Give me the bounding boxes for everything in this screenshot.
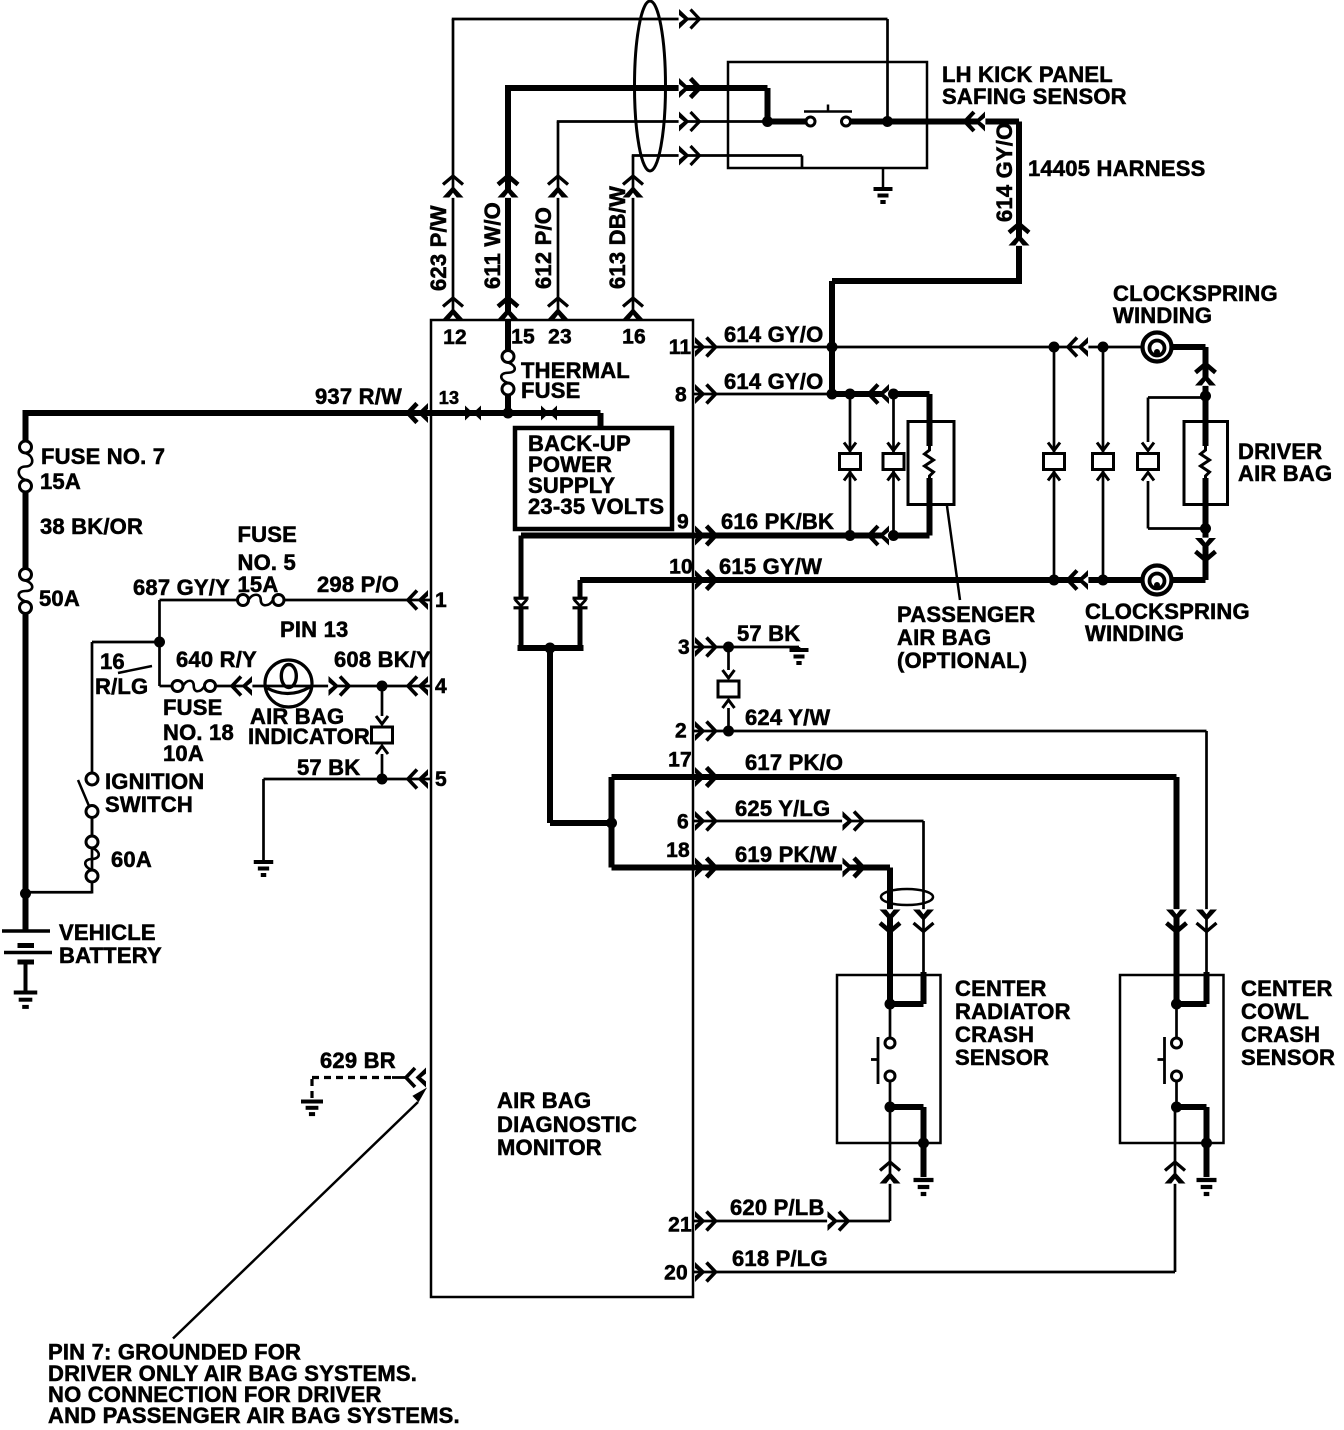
pointer line from 16 R/LG label (118, 666, 152, 673)
svg-text:619 PK/W: 619 PK/W (735, 842, 837, 867)
callout line passenger air bag (947, 506, 960, 600)
svg-text:18: 18 (666, 839, 690, 862)
label 57 BK (297, 755, 360, 780)
label 614 GY/O vertical (992, 123, 1017, 222)
fusible link 50A (19, 569, 33, 614)
shorting bar connector row8-9 right (883, 394, 904, 536)
svg-text:MONITOR: MONITOR (497, 1135, 602, 1160)
node cowl feed (1171, 999, 1182, 1010)
air bag diagnostic monitor U1 box (431, 320, 693, 1297)
label CLOCKSPRING WINDING bottom (1085, 599, 1250, 646)
svg-text:298 P/O: 298 P/O (317, 572, 399, 597)
label 619 PK/W (735, 842, 837, 867)
wire 614 GY/O drop to monitor rows (thick) (829, 281, 835, 394)
svg-text:16: 16 (100, 649, 125, 674)
svg-text:PIN 13: PIN 13 (280, 617, 348, 642)
fuse F7 FUSE NO.7 15A (19, 441, 33, 492)
label 629 BR (320, 1048, 396, 1073)
node row8 x832 (827, 389, 838, 400)
wire 38 BK/OR (thick) (23, 492, 29, 569)
svg-text:50A: 50A (39, 586, 80, 611)
wire passenger squib feed (thick) (927, 394, 933, 536)
wire 623 P/W horizontal run (452, 9, 888, 29)
label PASSENGER AIR BAG (OPTIONAL) (897, 602, 1035, 673)
harness loop around sensor wires (881, 889, 933, 905)
label 618 P/LG (732, 1246, 828, 1271)
svg-text:17: 17 (668, 749, 692, 772)
label 623 P/W (426, 205, 451, 291)
wire 619 PK/W pin 18 row (thick) (693, 858, 890, 878)
svg-text:613 DB/W: 613 DB/W (605, 186, 630, 289)
wire 617 PK/O pin 17 row (thick) (693, 774, 1177, 780)
wire clockspring top to driver loop (thick) (1171, 347, 1216, 396)
svg-text:10A: 10A (163, 741, 204, 766)
pin 3 connector arrows (695, 637, 716, 657)
wire 623 P/W vertical riser to pin 12 (443, 19, 464, 321)
svg-text:623 P/W: 623 P/W (426, 205, 451, 291)
label CENTER COWL CRASH SENSOR (1241, 976, 1335, 1070)
wire 616 PK/BK pin 9 row (thick) (693, 526, 930, 546)
svg-text:VEHICLE: VEHICLE (59, 920, 156, 945)
node 16 R/LG junction (154, 637, 165, 648)
pin 13 connector arrows (408, 403, 428, 423)
svg-text:614 GY/O: 614 GY/O (724, 322, 823, 347)
ground radiator sensor (914, 1180, 934, 1194)
wire ignition feed horizontal (26, 810, 93, 894)
fuse F5 FUSE NO.5 15A (238, 595, 285, 606)
wire 614 GY/O from safing sensor down (thick) (1009, 122, 1030, 282)
node pin3 junction (723, 642, 734, 653)
label 616 PK/BK (721, 509, 834, 534)
svg-text:625 Y/LG: 625 Y/LG (735, 796, 830, 821)
internal sensing leg pin 10 (573, 580, 588, 648)
vehicle battery B1 (2, 931, 52, 991)
node row11 x1054 (1049, 342, 1060, 353)
internal branch to pin 18 (thick) (612, 823, 694, 868)
label DRIVER AIR BAG (1238, 439, 1332, 486)
wire 612 P/O vertical riser to pin 23 (548, 122, 569, 322)
passenger air bag module box (908, 422, 954, 505)
label 613 DB/W (605, 186, 630, 289)
node row10 x1103 (1098, 575, 1109, 586)
wire cowl jog (thick) (1177, 972, 1207, 1004)
wire battery positive (thick) (23, 614, 29, 932)
pin 2 label (675, 720, 687, 743)
label 614 GY/O row 8 (724, 369, 823, 394)
label 15A (40, 469, 81, 494)
pin 10 label (669, 556, 693, 579)
label 640 R/Y (176, 647, 257, 672)
wire 625 Y/LG drop (913, 821, 934, 972)
label 38 BK/OR (40, 514, 143, 539)
label FUSE NO. 7 (41, 444, 165, 469)
svg-text:WINDING: WINDING (1113, 303, 1212, 328)
svg-text:15: 15 (511, 326, 535, 349)
svg-text:AIR BAG: AIR BAG (1238, 461, 1332, 486)
svg-text:CRASH: CRASH (1241, 1022, 1320, 1047)
wire 617 PK/O drop (thick) (1166, 777, 1187, 972)
squib R2 passenger air bag (925, 446, 934, 478)
pin 9 connector arrows (695, 526, 716, 546)
svg-text:IGNITION: IGNITION (105, 769, 204, 794)
label VEHICLE BATTERY (59, 920, 162, 968)
ground 57 BK (254, 862, 274, 875)
pin 20 connector arrows (695, 1262, 716, 1282)
connector in indicator return (372, 716, 393, 754)
pin 21 connector arrows (695, 1211, 716, 1231)
internal wire from pin 9 (thick) (521, 533, 693, 539)
label 611 W/O (480, 202, 505, 289)
switch S2 ignition switch (78, 773, 98, 818)
note PIN 7 text (48, 1340, 460, 1429)
svg-text:9: 9 (677, 511, 689, 534)
svg-text:SENSOR: SENSOR (1241, 1045, 1335, 1070)
svg-text:11: 11 (669, 336, 692, 359)
label PIN 13 (280, 617, 348, 642)
wire 640 R/Y row (160, 676, 313, 696)
wire 937 R/W internal run to back-up supply (thick) (431, 413, 601, 428)
LH kick panel safing sensor enclosure box (728, 62, 927, 168)
label 14405 HARNESS (1028, 156, 1205, 181)
pin 23 label (548, 326, 572, 349)
svg-text:RADIATOR: RADIATOR (955, 999, 1071, 1024)
svg-text:21: 21 (668, 1214, 692, 1237)
svg-text:618 P/LG: 618 P/LG (732, 1246, 828, 1271)
node 608 BK/Y junction (377, 681, 388, 692)
shield loop ellipse around harness wires (635, 1, 666, 171)
back-up power supply box (515, 428, 672, 529)
pin 12 label (443, 326, 467, 349)
internal branch to pin 17 (thick) (612, 777, 694, 823)
wire 57 BK pin 3 row (693, 646, 790, 649)
wire ignition riser (91, 642, 94, 773)
svg-text:687 GY/Y: 687 GY/Y (133, 575, 230, 600)
wire clockspring bottom to driver loop (thick) (1171, 529, 1216, 581)
internal trunk down (thick) (547, 648, 553, 823)
node row8 x893 (888, 389, 899, 400)
pin 8 label (675, 384, 687, 407)
svg-text:616 PK/BK: 616 PK/BK (721, 509, 834, 534)
svg-text:14405 HARNESS: 14405 HARNESS (1028, 156, 1205, 181)
wire 613 DB/W stub to sensor case (801, 156, 804, 170)
svg-text:SAFING SENSOR: SAFING SENSOR (942, 84, 1127, 109)
wire 611 W/O vertical riser to pin 15 (498, 88, 519, 321)
wire 625 Y/LG pin 6 row (693, 811, 924, 831)
pin 1 connector arrows (408, 590, 428, 610)
pin 2 connector arrows (695, 721, 716, 741)
pin 6 label (677, 811, 689, 834)
node internal bus (545, 643, 556, 654)
connector bowtie on row 13 right (541, 406, 557, 421)
svg-text:23: 23 (548, 326, 572, 349)
switch S4 center cowl crash sensor (1158, 1004, 1182, 1107)
pin 20 label (664, 1262, 688, 1285)
internal trunk horizontal (thick) (550, 820, 612, 826)
svg-text:640 R/Y: 640 R/Y (176, 647, 257, 672)
wire 624 Y/W drop (1196, 731, 1217, 972)
svg-text:DIAGNOSTIC: DIAGNOSTIC (497, 1112, 637, 1137)
wire cowl sensor feed (thick) (1174, 972, 1180, 1004)
label 617 PK/O (745, 750, 843, 775)
node thermal fuse to 937 R/W (503, 408, 514, 419)
svg-text:1: 1 (435, 589, 447, 612)
label IGNITION SWITCH (105, 769, 204, 817)
wire 614 GY/O pin 8 row (693, 384, 930, 404)
wire 611 W/O drop into safing sensor (765, 88, 771, 122)
wire 618 P/LG sensor leg (1165, 1107, 1186, 1272)
svg-text:AND PASSENGER AIR BAG SYSTEMS.: AND PASSENGER AIR BAG SYSTEMS. (48, 1403, 460, 1428)
svg-text:4: 4 (435, 675, 447, 698)
pin 13 label (439, 388, 459, 408)
node row8 x850 (845, 389, 856, 400)
svg-text:5: 5 (435, 768, 447, 791)
svg-text:3: 3 (678, 636, 690, 659)
label 60A (111, 847, 152, 872)
svg-text:615 GY/W: 615 GY/W (719, 554, 822, 579)
svg-text:937 R/W: 937 R/W (315, 384, 402, 409)
svg-text:BATTERY: BATTERY (59, 943, 162, 968)
wire 619 PK/W drop (thick) (880, 868, 901, 973)
node radiator output (885, 1102, 896, 1113)
svg-text:614 GY/O: 614 GY/O (724, 369, 823, 394)
svg-text:SWITCH: SWITCH (105, 792, 193, 817)
squib R1 driver air bag (1201, 446, 1210, 478)
svg-text:AIR BAG: AIR BAG (897, 625, 991, 650)
svg-text:CENTER: CENTER (955, 976, 1047, 1001)
svg-text:629 BR: 629 BR (320, 1048, 396, 1073)
node 623/614 junction at safing sensor output (882, 116, 893, 127)
pin 5 label (435, 768, 447, 791)
ground 629 BR (301, 1079, 323, 1114)
label FUSE NO. 5 15A (238, 522, 297, 597)
shorting bar connector rows 347-580 left (1044, 347, 1065, 580)
label 687 GY/Y (133, 575, 230, 600)
wire 16 R/LG horizontal (92, 641, 160, 644)
pin 17 connector arrows (695, 767, 716, 787)
label 608 BK/Y (334, 647, 431, 672)
wire 612 P/O horizontal run (557, 112, 768, 132)
wire 611 W/O horizontal run (505, 78, 768, 98)
svg-text:60A: 60A (111, 847, 152, 872)
label 612 P/O (531, 207, 556, 289)
svg-text:608 BK/Y: 608 BK/Y (334, 647, 431, 672)
wire 614 GY/O pin 11 row (693, 337, 1143, 357)
label 57 BK right (737, 621, 800, 646)
internal sensing leg pin 9 (514, 536, 529, 649)
label 298 P/O (317, 572, 399, 597)
ground cowl sensor (1197, 1180, 1217, 1194)
wire 623 P/W drop to safing sensor node (886, 19, 889, 122)
label CLOCKSPRING WINDING top (1113, 281, 1278, 328)
node 57 BK junction (377, 774, 388, 785)
wire connector to 57 BK row (381, 754, 384, 779)
label 620 P/LB (730, 1195, 825, 1220)
label BACK-UP POWER SUPPLY 23-35 VOLTS (528, 431, 664, 519)
label 615 GY/W (719, 554, 822, 579)
wire cowl ground jog (thick) (1177, 1107, 1207, 1177)
fuse F18 FUSE NO.18 10A (172, 681, 216, 692)
pin 9 label (677, 511, 689, 534)
shorting bar loop driver air bag (1138, 398, 1206, 529)
svg-text:AIR BAG: AIR BAG (497, 1088, 591, 1113)
shorting bar connector rows 347-580 right (1093, 347, 1114, 580)
wire 57 BK drop to ground (262, 779, 265, 860)
svg-text:2: 2 (675, 720, 687, 743)
wire 620 P/LB pin 21 row (693, 1211, 890, 1231)
wire safing sensor row (thick) (768, 112, 1020, 132)
pin 8 connector arrows (695, 384, 716, 404)
label LH KICK PANEL (942, 62, 1113, 87)
fusible link 60A (85, 836, 99, 882)
node row11 x1103 (1098, 342, 1109, 353)
wire riser 687 GY/Y (158, 600, 161, 686)
node driver loop top (1200, 391, 1211, 402)
ground battery (14, 993, 38, 1007)
svg-text:WINDING: WINDING (1085, 621, 1184, 646)
svg-text:20: 20 (664, 1262, 688, 1285)
svg-text:FUSE NO. 7: FUSE NO. 7 (41, 444, 165, 469)
label 625 Y/LG (735, 796, 830, 821)
connector between pin3 and pin2 (718, 670, 739, 708)
pin 21 label (668, 1214, 692, 1237)
svg-text:16: 16 (622, 326, 646, 349)
wire 687 GY/Y row (160, 599, 432, 602)
center cowl crash sensor box (1120, 975, 1224, 1143)
svg-text:CRASH: CRASH (955, 1022, 1034, 1047)
label 937 R/W (315, 384, 402, 409)
wire 608 BK/Y row (312, 676, 431, 696)
wire 937 R/W main feed (thick) (26, 410, 432, 416)
wire battery feed upper (thick) (23, 410, 29, 441)
connector bowtie on row 13 left (465, 406, 481, 421)
svg-text:23-35 VOLTS: 23-35 VOLTS (528, 494, 664, 519)
label 50A (39, 586, 80, 611)
svg-text:FUSE: FUSE (521, 378, 580, 403)
node cowl output (1171, 1102, 1182, 1113)
wire pin3 to connector (727, 647, 730, 670)
wire 618 P/LG pin 20 row (693, 1271, 1175, 1274)
label CENTER RADIATOR CRASH SENSOR (955, 976, 1071, 1070)
svg-text:(OPTIONAL): (OPTIONAL) (897, 648, 1027, 673)
wire 613 DB/W vertical riser to pin 16 (623, 156, 644, 322)
callout line PIN 7 note (173, 1088, 427, 1339)
ground safing sensor case (874, 168, 893, 202)
node battery junction (20, 888, 31, 899)
svg-text:57 BK: 57 BK (737, 621, 800, 646)
wire radiator jog (thick) (890, 972, 924, 1004)
svg-text:10: 10 (669, 556, 693, 579)
pin 10 connector arrows (695, 570, 716, 590)
svg-text:614 GY/O: 614 GY/O (992, 123, 1017, 222)
switch S1 safing sensor contacts (804, 105, 852, 127)
node cowl ground at box edge (1201, 1138, 1212, 1149)
node 611 W/O to sensor contact (762, 116, 773, 127)
label 16 R/LG (95, 649, 148, 699)
node row10 x1054 (1049, 575, 1060, 586)
label SAFING SENSOR (942, 84, 1127, 109)
pin 18 label (666, 839, 690, 862)
svg-text:FUSE: FUSE (163, 695, 222, 720)
switch S3 center radiator crash sensor (871, 1004, 895, 1107)
shorting bar connector row8-9 left (840, 394, 861, 536)
svg-text:CENTER: CENTER (1241, 976, 1333, 1001)
wire 629 BR dashed (312, 1068, 426, 1088)
svg-text:15A: 15A (40, 469, 81, 494)
wire 57 BK row (264, 778, 432, 781)
pin 4 connector arrows (408, 676, 428, 696)
center radiator crash sensor box (837, 975, 941, 1143)
wire 615 GY/W pin 10 row (thick) (693, 570, 1143, 590)
wire 624 Y/W pin 2 row (693, 730, 1207, 733)
ground 57 BK right (790, 647, 809, 663)
svg-text:620 P/LB: 620 P/LB (730, 1195, 825, 1220)
wire radiator ground jog (thick) (890, 1107, 924, 1177)
pin 11 label (669, 336, 692, 359)
wire 614 GY/O horizontal jog (thick) (832, 278, 1022, 284)
internal wire from pin 10 (thick) (580, 577, 693, 583)
pin 16 label (622, 326, 646, 349)
node pin2 junction (723, 726, 734, 737)
svg-text:15A: 15A (238, 572, 279, 597)
pin 5 connector arrows (408, 769, 428, 789)
label 624 Y/W (745, 705, 830, 730)
svg-text:57 BK: 57 BK (297, 755, 360, 780)
driver air bag module box (1184, 422, 1228, 505)
internal bus bar (thick) (518, 645, 584, 651)
node radiator feed (885, 999, 896, 1010)
label 614 GY/O row 11 (724, 322, 823, 347)
pin 6 connector arrows (695, 811, 716, 831)
svg-text:8: 8 (675, 384, 687, 407)
svg-text:38 BK/OR: 38 BK/OR (40, 514, 143, 539)
node driver loop bottom (1200, 523, 1211, 534)
node row11 x832 (827, 342, 838, 353)
svg-text:R/LG: R/LG (95, 674, 148, 699)
pin 17 label (668, 749, 692, 772)
node radiator ground at box edge (918, 1138, 929, 1149)
wire connector to pin2 row (727, 708, 730, 731)
wire 613 DB/W horizontal run (632, 146, 802, 166)
node internal trunk split (606, 818, 617, 829)
svg-text:612 P/O: 612 P/O (531, 207, 556, 289)
svg-text:13: 13 (439, 388, 459, 408)
pin 3 label (678, 636, 690, 659)
label FUSE NO. 18 10A (163, 695, 234, 766)
svg-text:SENSOR: SENSOR (955, 1045, 1049, 1070)
clockspring winding L2 bottom (1143, 566, 1172, 595)
thermal fuse F1 (501, 320, 515, 413)
clockspring winding L1 top (1143, 333, 1172, 362)
svg-text:COWL: COWL (1241, 999, 1309, 1024)
svg-text:FUSE: FUSE (238, 522, 297, 547)
svg-text:6: 6 (677, 811, 689, 834)
pin 1 label (435, 589, 447, 612)
wire 620 P/LB sensor leg (880, 1107, 901, 1221)
pin 11 connector arrows (695, 337, 716, 357)
label AIR BAG INDICATOR (248, 704, 370, 749)
lamp DS1 air bag indicator (265, 660, 312, 707)
pin 4 label (435, 675, 447, 698)
pin 15 label (511, 326, 535, 349)
node row9 x893 (888, 530, 899, 541)
svg-text:12: 12 (443, 326, 467, 349)
pin 18 connector arrows (695, 858, 716, 878)
wire driver squib trunk (thick) (1203, 396, 1209, 529)
svg-text:624 Y/W: 624 Y/W (745, 705, 830, 730)
wire to indicator return connector (381, 686, 384, 716)
svg-text:617 PK/O: 617 PK/O (745, 750, 843, 775)
svg-text:INDICATOR: INDICATOR (248, 724, 370, 749)
